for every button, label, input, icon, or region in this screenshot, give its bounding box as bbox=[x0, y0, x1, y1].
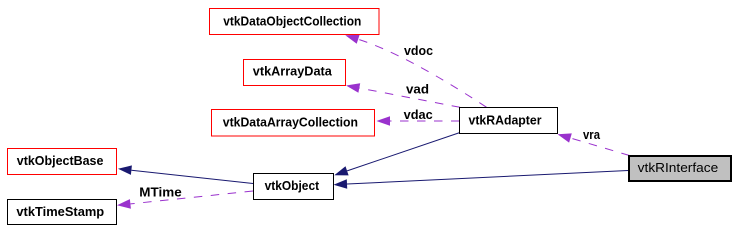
svg-text:vtkObjectBase: vtkObjectBase bbox=[17, 153, 104, 168]
svg-text:vtkDataObjectCollection: vtkDataObjectCollection bbox=[223, 14, 361, 29]
svg-text:vdoc: vdoc bbox=[404, 43, 433, 58]
svg-text:vtkRInterface: vtkRInterface bbox=[638, 160, 719, 175]
svg-text:vtkTimeStamp: vtkTimeStamp bbox=[16, 204, 104, 219]
svg-text:vtkDataArrayCollection: vtkDataArrayCollection bbox=[223, 115, 358, 130]
svg-text:vad: vad bbox=[406, 82, 429, 97]
svg-text:vtkRAdapter: vtkRAdapter bbox=[469, 113, 542, 128]
svg-text:vra: vra bbox=[583, 127, 601, 142]
svg-text:vtkObject: vtkObject bbox=[265, 178, 320, 193]
svg-text:vtkArrayData: vtkArrayData bbox=[253, 64, 333, 79]
svg-text:vdac: vdac bbox=[404, 107, 433, 122]
svg-text:MTime: MTime bbox=[139, 184, 181, 199]
